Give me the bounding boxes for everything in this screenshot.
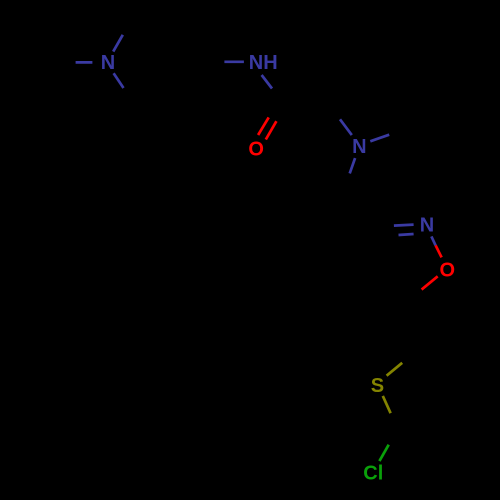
svg-text:O: O [440, 259, 456, 281]
svg-text:Cl: Cl [363, 463, 383, 485]
svg-text:NH: NH [249, 52, 278, 74]
svg-text:N: N [101, 52, 115, 74]
svg-text:O: O [248, 138, 264, 160]
svg-text:N: N [420, 215, 434, 237]
svg-text:N: N [352, 136, 366, 158]
svg-text:S: S [371, 375, 384, 397]
